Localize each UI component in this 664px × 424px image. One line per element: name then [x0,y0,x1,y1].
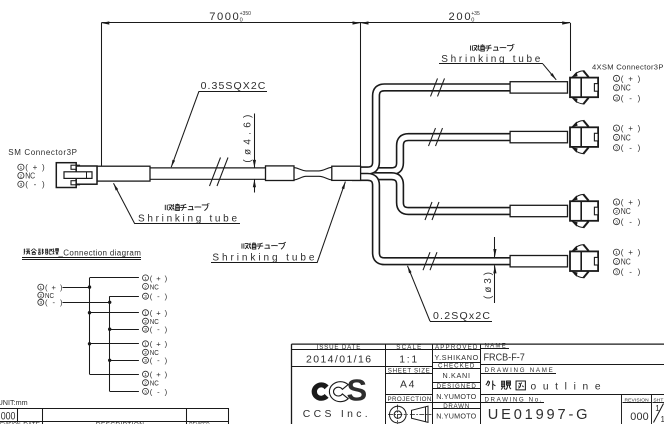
shrink tube at connector J1 [510,82,567,93]
svg-text:APPROVED: APPROVED [435,344,478,351]
connector J1 body [570,78,598,98]
wire bus B to output 4 pin 3 [110,391,139,393]
svg-text:1: 1 [144,372,147,377]
svg-text:1: 1 [661,415,664,424]
dimension (ø4.6) vertical [254,114,256,168]
diagram source pin 3 (-) label [38,299,44,305]
diagram output 1 pin 1 (+) label [143,275,149,281]
svg-text:SM Connector3P: SM Connector3P [8,148,77,157]
cable break symbol [210,158,221,187]
svg-text:1: 1 [615,200,618,205]
svg-text:Shrinking tube: Shrinking tube [138,213,237,224]
diagram output 1 pin 2 NC label [143,283,149,289]
svg-text:UNIT:mm: UNIT:mm [0,398,28,407]
svg-text:N.YUMOTO: N.YUMOTO [436,412,476,421]
svg-text:0.35SQX2C: 0.35SQX2C [201,80,266,92]
projection symbol (third angle) [390,406,407,423]
svg-text:2: 2 [40,293,43,298]
svg-text:000: 000 [630,411,649,423]
connector J3 pin 1 (+) label [613,199,619,205]
wire bus B to output 3 pin 3 [110,360,139,362]
wire W1 break symbol [431,78,438,96]
diagram output 4 pin 1 (+) label [143,371,149,377]
wire from source pin 1 to bus A [63,287,90,289]
connector J4 polarity notch [594,257,598,265]
extension line left of dimension 7000 (x=101) [101,23,103,166]
svg-text:1: 1 [615,76,618,81]
connector J3 polarity notch [594,207,598,215]
connector P1 pin 2 NC label [18,172,24,178]
svg-text:NC: NC [621,257,631,266]
svg-text:3: 3 [615,146,618,151]
diagram source pin 1 (+) label [38,284,44,290]
cable neck between tubes [294,167,332,171]
svg-text:NC: NC [150,379,159,388]
svg-text:2: 2 [615,259,618,264]
junction node bus B / output 3 [108,359,111,362]
svg-text:NAME: NAME [485,343,506,350]
diagram source pin 2 NC label [38,292,44,298]
dimension line 7000 [101,22,360,24]
revision history table [0,408,229,410]
diagram output 4 pin 3 (-) label [143,388,149,394]
svg-text:PROJECTION: PROJECTION [387,396,431,403]
svg-text:NC: NC [150,282,159,291]
dimension line 200 [361,22,571,24]
wire W1 (to connector J1) [352,87,516,170]
connector J1 polarity notch [594,84,598,92]
diagram output 4 pin 2 NC label [143,380,149,386]
svg-text:2: 2 [144,319,147,324]
connector J2 pin 2 NC label [613,134,619,140]
label shrinking tube (middle, Japanese) [242,243,249,248]
diagram output 2 pin 1 (+) label [143,310,149,316]
connector J4 pin 2 NC label [613,258,619,264]
svg-text:SCALE: SCALE [396,344,421,351]
svg-text:1:1: 1:1 [399,354,417,365]
junction node bus A / output 2 [88,311,91,314]
svg-text:0: 0 [240,18,243,24]
connector J3 bottom latch [574,223,583,227]
svg-text:3: 3 [615,220,618,225]
wire bus A to output 3 pin 1 [90,343,139,345]
CCS logo [312,382,329,400]
wire bus A to output 4 pin 1 [90,374,139,376]
svg-text:1: 1 [144,311,147,316]
label shrinking tube (top right, Japanese) [470,45,477,50]
svg-text:NC: NC [25,171,35,180]
svg-text:DRAWN: DRAWN [443,403,469,410]
diagram output 3 pin 3 (-) label [143,357,149,363]
svg-text:3: 3 [144,327,147,332]
svg-text:_Connection diagram: _Connection diagram [58,248,142,257]
connector J2 polarity notch [594,133,598,141]
svg-text:2: 2 [144,284,147,289]
diagram output 2 pin 2 NC label [143,318,149,324]
svg-text:SHEET SIZE: SHEET SIZE [388,367,430,374]
svg-text:2: 2 [144,350,147,355]
bus B vertical (-) [109,296,111,391]
svg-text:UE01997-G: UE01997-G [488,407,588,423]
svg-text:0.2SQx2C: 0.2SQx2C [433,310,490,322]
wire W3 break symbol [425,202,432,220]
connector J1 bottom latch [574,100,583,104]
svg-text:2014/01/16: 2014/01/16 [306,354,371,365]
svg-text:3: 3 [20,182,23,187]
svg-text:+350: +350 [240,11,251,17]
connector P1 pin 3 (-) label [18,181,24,187]
svg-text:( + ): ( + ) [621,124,641,133]
svg-text:7000: 7000 [209,11,238,23]
svg-text:2: 2 [144,381,147,386]
shrink tube at connector J2 [510,131,567,142]
svg-text:REVISION: REVISION [625,397,650,403]
wire W2 (to connector J2) [352,137,516,171]
svg-text:( + ): ( + ) [621,74,641,83]
wire bus A to output 2 pin 1 [90,312,139,314]
svg-text:S: S [347,373,368,408]
svg-text:1: 1 [615,250,618,255]
label shrinking tube (left, Japanese) [165,205,172,211]
svg-text:2: 2 [615,86,618,91]
svg-text:200: 200 [449,11,471,23]
svg-text:3: 3 [144,358,147,363]
shrink tube behind connector P1 [97,166,150,181]
connector P1 front housing [76,166,97,184]
connector J1 top latch [574,71,583,75]
svg-text:1: 1 [615,126,618,131]
svg-text:2: 2 [615,135,618,140]
svg-text:0: 0 [471,18,474,24]
connector J2 pin 3 (-) label [613,145,619,151]
svg-text:3: 3 [40,300,43,305]
junction node bus A / source [88,285,91,288]
svg-text:1: 1 [144,276,147,281]
shrink tube at connector J3 [510,205,567,216]
cable 0.35SQ main run [150,167,266,169]
drawing name (outline, Japanese) [486,381,496,390]
wire bus B to output 2 pin 3 [110,329,139,331]
diagram output 3 pin 1 (+) label [143,341,149,347]
svg-text:+35: +35 [471,11,480,17]
extension line between dimensions 7000 and 200 (x=360.5) [360,23,362,166]
svg-text:2: 2 [20,173,23,178]
svg-text:4XSM Connector3P: 4XSM Connector3P [592,63,663,72]
svg-text:ISSUE DATE: ISSUE DATE [317,344,361,351]
connector J3 pin 3 (-) label [613,219,619,225]
connector J2 top latch [574,121,583,125]
svg-text:DESIGNED: DESIGNED [437,383,477,390]
svg-text:2: 2 [615,209,618,214]
svg-text:( + ): ( + ) [621,248,641,257]
connector J4 bottom latch [574,274,583,278]
wire W3 (to connector J3) [352,176,516,211]
connector J3 top latch [574,194,583,198]
shrink tube over cable mid-left [266,166,295,181]
wire W4 break symbol [423,252,430,270]
connector P1 housing notches [71,165,80,169]
connection diagram title [24,249,30,255]
shrink tube over cable mid-right (split point) [332,166,361,180]
svg-text:NC: NC [621,133,631,142]
wire W4 (to connector J4) [352,177,516,261]
svg-text:3: 3 [615,96,618,101]
connector J2 body [570,127,598,147]
svg-text:CHECKED: CHECKED [438,363,475,370]
diagram output 3 pin 2 NC label [143,349,149,355]
connector J1 pin 3 (-) label [613,95,619,101]
diagram output 2 pin 3 (-) label [143,326,149,332]
wire bus A to output 1 pin 1 [90,277,139,279]
svg-text:FRCB-F-7: FRCB-F-7 [484,353,526,364]
svg-text:NC: NC [621,84,631,93]
wire W2 break symbol [429,128,436,146]
junction node bus B / output 2 [108,328,111,331]
wire bus B to output 1 pin 3 [110,296,139,298]
svg-text:1: 1 [40,285,43,290]
svg-text:1: 1 [20,165,23,170]
svg-text:3: 3 [144,389,147,394]
title block frame [292,343,664,345]
connector J2 bottom latch [574,150,583,154]
svg-text:3: 3 [615,270,618,275]
connector J4 top latch [574,245,583,249]
junction node bus A / output 3 [88,342,91,345]
connector P1 contact tongue [64,172,92,179]
bus A vertical (+) [89,278,91,374]
connector P1 rear housing [56,163,76,188]
svg-text:N.KANI: N.KANI [442,371,470,380]
connector J4 pin 1 (+) label [613,249,619,255]
svg-text:NC: NC [621,207,631,216]
wire from source pin 3 to bus B [63,302,110,304]
svg-text:Y.SHIKANO: Y.SHIKANO [435,353,479,362]
junction node bus B / source [108,301,111,304]
dimension (ø3) vertical [494,237,496,257]
svg-text:( + ): ( + ) [621,198,641,207]
connector J4 pin 3 (-) label [613,269,619,275]
connector J2 pin 1 (+) label [613,125,619,131]
diagram output 1 pin 3 (-) label [143,293,149,299]
connector J1 pin 1 (+) label [613,75,619,81]
extension line right of dimension 200 (x=570) [570,23,572,71]
connector P1 pin 1 (+) label [18,164,24,170]
connector J3 pin 2 NC label [613,208,619,214]
connector J3 body [570,201,598,221]
svg-text:SHT: SHT [653,397,663,403]
svg-text:3: 3 [144,294,147,299]
connector J4 body [570,251,598,271]
svg-text:N.YUMOTO: N.YUMOTO [436,392,476,401]
shrink tube at connector J4 [510,256,567,267]
svg-text:1: 1 [144,342,147,347]
connector J1 pin 2 NC label [613,85,619,91]
